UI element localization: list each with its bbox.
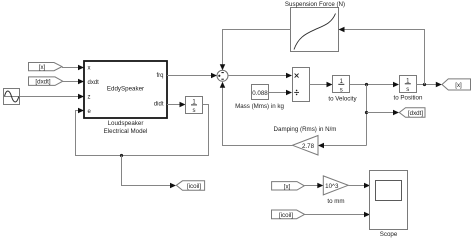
Goto tag [icoil] <box>176 181 204 191</box>
arrow into product x input <box>286 73 292 79</box>
svg-text:to Velocity: to Velocity <box>328 96 357 103</box>
From tag [x] <box>29 63 63 72</box>
svg-text:0.088: 0.088 <box>252 90 268 97</box>
svg-text:s: s <box>193 108 196 114</box>
arrow left into suspension input <box>339 27 345 33</box>
svg-text:2.78: 2.78 <box>302 143 315 150</box>
arrow into mm gain <box>317 183 323 189</box>
arrow into scope input 1 <box>364 183 370 189</box>
junction velocity branch <box>365 83 368 86</box>
arrow into damping gain <box>318 143 324 149</box>
junction icoil branch <box>120 154 123 157</box>
From tag [dxdt] <box>29 77 63 86</box>
Suspension Force lookup block <box>291 8 339 52</box>
svg-text:[dxdt]: [dxdt] <box>408 110 423 117</box>
svg-text:to Position: to Position <box>394 94 423 101</box>
svg-text:[x]: [x] <box>39 64 46 71</box>
svg-text:[icoil]: [icoil] <box>187 183 201 190</box>
From tag [x] bottom <box>272 182 305 191</box>
arrow down into sum top <box>220 64 226 70</box>
svg-text:EddySpeaker: EddySpeaker <box>107 86 144 93</box>
wire icoil from to scope input 2 <box>305 214 366 216</box>
arrow into position integrator <box>393 82 399 88</box>
Goto tag [dxdt] <box>399 108 425 118</box>
wire frq to sum <box>167 75 213 77</box>
integrator to Position <box>400 76 417 94</box>
arrow into x goto <box>436 82 442 88</box>
arrow into port x <box>78 65 84 71</box>
sum block <box>217 70 228 81</box>
wire product to velocity integrator <box>310 84 329 86</box>
wire position to x goto <box>417 84 438 86</box>
wire velocity to position <box>350 84 395 86</box>
arrow into scope input 2 <box>364 212 370 218</box>
svg-text:x: x <box>88 65 91 71</box>
constant 0.088 <box>252 85 269 100</box>
integrator 1/s (coil current) <box>186 97 203 115</box>
svg-text:to mm: to mm <box>327 198 344 205</box>
svg-text:z: z <box>88 94 91 100</box>
wire feedback up to suspension <box>343 30 425 85</box>
From tag [icoil] bottom <box>272 210 305 219</box>
wire didt to integrator <box>167 104 181 106</box>
arrow into port e <box>78 108 84 114</box>
svg-text:didt: didt <box>154 101 164 107</box>
svg-text:10^3: 10^3 <box>325 183 339 190</box>
wire branch down from velocity <box>366 85 368 146</box>
arrow into dxdt goto <box>393 110 399 116</box>
wire branch to icoil goto <box>122 156 173 186</box>
arrow into product divide input <box>286 90 292 96</box>
svg-text:frq: frq <box>156 73 163 79</box>
arrow into velocity integrator <box>327 82 333 88</box>
svg-text:[dxdt]: [dxdt] <box>35 79 50 86</box>
wire [dxdt] to port dxdt <box>63 81 80 83</box>
wire [x] to port x <box>62 67 80 69</box>
svg-text:[x]: [x] <box>455 82 462 89</box>
gain Damping 2.78 (flipped) <box>293 136 319 156</box>
svg-text:s: s <box>340 88 343 94</box>
integrator to Velocity <box>333 76 350 94</box>
wire suspension out to sum top <box>223 30 291 66</box>
svg-text:Loudspeaker: Loudspeaker <box>108 120 144 127</box>
svg-text:dxdt: dxdt <box>88 80 100 86</box>
wire integrator out loop to port e <box>76 105 209 156</box>
svg-text:Damping (Rms) in N/m: Damping (Rms) in N/m <box>274 126 337 133</box>
arrow into sum left <box>211 73 217 79</box>
junction feedback branch <box>423 83 426 86</box>
svg-text:[x]: [x] <box>284 183 291 190</box>
junction dxdt branch <box>365 111 368 114</box>
Scope block <box>370 171 408 230</box>
wire velocity branch to damping gain <box>322 145 367 147</box>
arrow into icoil goto <box>170 183 176 189</box>
wire sum out to product <box>228 75 288 77</box>
svg-text:Mass (Mms) in kg: Mass (Mms) in kg <box>235 103 284 110</box>
svg-text:Suspension Force (N): Suspension Force (N) <box>285 1 345 8</box>
sine wave source block <box>4 89 20 105</box>
svg-text:Electrical Model: Electrical Model <box>104 128 148 135</box>
arrow into port z <box>78 94 84 100</box>
svg-text:s: s <box>406 87 409 93</box>
wire branch to dxdt goto <box>367 112 396 114</box>
subsystem EddySpeaker (Loudspeaker Electrical Model) <box>84 61 167 118</box>
wire x from to gain <box>304 185 319 187</box>
wire sine to port z <box>20 96 80 98</box>
svg-text:Scope: Scope <box>380 231 398 238</box>
wire gain to scope input 1 <box>348 185 366 187</box>
arrow into port dxdt <box>78 79 84 85</box>
wire damping out to sum bottom <box>223 87 293 146</box>
arrow up into sum bottom <box>220 82 226 88</box>
product (divide) block <box>293 68 310 102</box>
wire constant to product divide input <box>269 92 289 94</box>
svg-text:[icoil]: [icoil] <box>279 212 293 219</box>
caption Loudspeaker Electrical Model <box>104 120 148 135</box>
arrow into integrator <box>180 102 186 108</box>
gain 10^3 to mm <box>323 176 348 195</box>
Goto tag [x] <box>442 79 471 90</box>
